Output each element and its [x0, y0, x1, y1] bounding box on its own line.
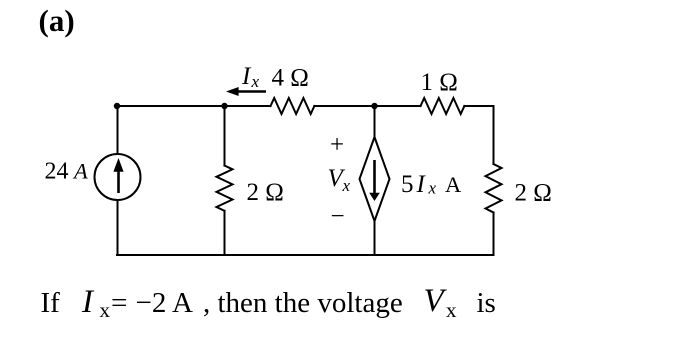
- svg-text:1 Ω: 1 Ω: [421, 69, 458, 96]
- svg-text:If: If: [41, 287, 61, 319]
- wire top-middle segment R1 to node C: [314, 105, 420, 107]
- current Ix arrow pointing left: [226, 87, 266, 96]
- svg-text:x: x: [342, 176, 351, 195]
- svg-text:x: x: [251, 72, 260, 91]
- svg-text:+: +: [330, 132, 344, 159]
- wire top-right segment R2 to right corner: [464, 105, 493, 107]
- svg-text:A: A: [72, 159, 88, 184]
- svg-text:−: −: [331, 203, 345, 230]
- svg-text:x: x: [446, 298, 457, 322]
- wire right branch lower: [493, 213, 495, 256]
- resistor R2 1 ohm: [421, 98, 465, 114]
- svg-text:x: x: [100, 298, 111, 322]
- arrow of current source I1 pointing up: [113, 158, 123, 193]
- node dot A top-left corner: [114, 103, 120, 109]
- svg-text:=: =: [111, 287, 127, 319]
- svg-text:5: 5: [401, 171, 414, 198]
- svg-text:is: is: [477, 287, 496, 319]
- wire bottom: [117, 254, 494, 256]
- wire right branch upper: [493, 106, 495, 164]
- svg-text:−2 A: −2 A: [136, 287, 194, 319]
- wire left branch lower: [117, 201, 119, 255]
- resistor R1 4 ohm: [271, 98, 315, 114]
- node dot C top of dependent source branch: [371, 103, 377, 109]
- resistor R3 2 ohm middle: [217, 166, 233, 211]
- wire middle branch upper: [224, 106, 226, 166]
- svg-text:I: I: [81, 284, 95, 320]
- wire top-left segment node A to R1: [117, 105, 271, 107]
- wire dependent-source branch lower: [374, 221, 376, 255]
- wire left branch upper: [117, 106, 119, 154]
- svg-text:A: A: [445, 172, 462, 197]
- svg-text:(a): (a): [39, 3, 75, 38]
- arrow of dependent source pointing down: [369, 160, 380, 201]
- resistor R4 2 ohm right: [486, 164, 502, 213]
- svg-text:2 Ω: 2 Ω: [247, 179, 284, 206]
- svg-text:2 Ω: 2 Ω: [515, 180, 552, 207]
- node dot B top of 2 ohm branch: [221, 103, 227, 109]
- current source I1 circle 24A: [95, 154, 141, 200]
- dependent current source U1 diamond: [360, 137, 390, 221]
- wire middle branch lower: [224, 211, 226, 255]
- svg-text:24: 24: [45, 159, 69, 185]
- svg-text:, then the voltage: , then the voltage: [203, 287, 403, 319]
- svg-text:4 Ω: 4 Ω: [272, 65, 309, 92]
- svg-text:x: x: [428, 179, 437, 198]
- wire dependent-source branch upper: [374, 106, 376, 137]
